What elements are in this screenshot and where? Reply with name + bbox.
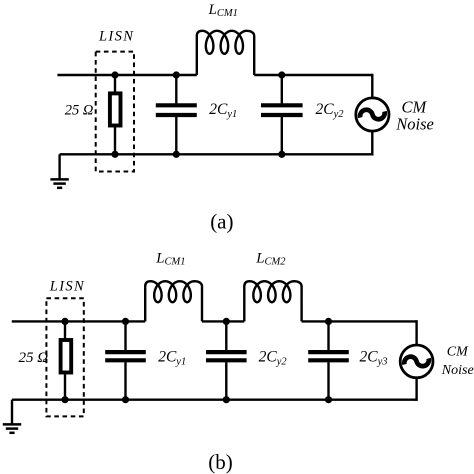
junction (a): top rail / resistor [111,71,118,78]
wire: (a) top rail, LISN input to L_CM1 left terminal [57,74,196,76]
inductor L_CM1 (b) coil [145,281,202,321]
svg-text:LCM1: LCM1 [155,250,185,267]
junction (a): bottom rail / resistor [111,151,118,158]
wire: (a) CM noise source bottom lead [371,131,373,155]
inductor L_CM2 (b) coil [244,281,301,321]
inductor L_CM1 (a) coil [197,31,254,75]
wire: (a) bottom ground rail [60,153,373,155]
junction (b): top rail / resistor [61,318,68,325]
svg-text:Noise: Noise [441,363,474,378]
wire: (b) top rail between L_CM1 and L_CM2 [202,320,244,322]
capacitor 2Cy3 (b) plates [308,352,349,360]
resistor 25 ohm (a) body [110,93,121,125]
junction (a): bottom rail / capacitor 2Cy2 [278,151,285,158]
svg-text:2Cy1: 2Cy1 [158,348,186,367]
capacitor 2Cy1 (b) plates [105,352,146,360]
wire: (a) resistor bottom lead [114,126,116,155]
junction (b): top rail / capacitor 2Cy1 [122,318,129,325]
svg-text:Noise: Noise [395,115,434,134]
junction (b): top rail / capacitor 2Cy2 [223,318,230,325]
wire: (a) CM noise source top lead [371,74,373,98]
junction (b): bottom rail / capacitor 2Cy1 [122,396,129,403]
svg-text:LISN: LISN [49,278,85,294]
junction (b): bottom rail / capacitor 2Cy2 [223,396,230,403]
junction (b): bottom rail / resistor [61,396,68,403]
wire: (a) top rail, L_CM1 right terminal to CM noise source [254,74,372,76]
resistor 25 ohm (b) body [61,340,72,373]
svg-text:(a): (a) [210,209,233,233]
CM noise source (b) sine generator [400,345,433,378]
wire: (b) capacitor 2Cy2 top lead [225,321,227,350]
svg-text:(b): (b) [208,450,233,474]
wire: (a) capacitor 2Cy1 bottom lead [175,117,177,154]
capacitor 2Cy1 (a) plates [156,105,197,115]
svg-text:2Cy1: 2Cy1 [209,101,237,120]
svg-text:LISN: LISN [98,28,134,44]
wire: (b) capacitor 2Cy1 bottom lead [124,362,126,400]
ground (a) [50,154,68,188]
wire: (b) capacitor 2Cy3 top lead [327,321,329,350]
wire: (b) CM noise source top lead [415,320,417,345]
junction (a): top rail / capacitor 2Cy2 [278,71,285,78]
junction (a): bottom rail / capacitor 2Cy1 [173,151,180,158]
capacitor 2Cy2 (b) plates [206,352,247,360]
svg-text:LCM2: LCM2 [255,250,286,267]
wire: (b) top rail, L_CM2 right terminal to CM noise source [302,320,417,322]
wire: (a) resistor top lead [114,75,116,93]
svg-text:LCM1: LCM1 [208,2,238,19]
svg-text:2Cy3: 2Cy3 [360,348,388,367]
wire: (b) top rail, LISN input to L_CM1 left terminal [12,320,145,322]
wire: (b) CM noise source bottom lead [415,378,417,401]
svg-text:25 Ω: 25 Ω [19,350,49,366]
LISN enclosure (b) dashed box [46,298,83,416]
junction (a): top rail / capacitor 2Cy1 [173,71,180,78]
wire: (b) capacitor 2Cy1 top lead [124,321,126,350]
capacitor 2Cy2 (a) plates [261,105,303,115]
wire: (a) capacitor 2Cy2 bottom lead [281,117,283,154]
ground (b) [3,400,21,433]
LISN enclosure (a) dashed box [96,52,134,172]
svg-text:2Cy2: 2Cy2 [316,101,345,120]
svg-text:2Cy2: 2Cy2 [259,348,288,367]
wire: (a) capacitor 2Cy2 top lead [281,75,283,103]
wire: (b) capacitor 2Cy3 bottom lead [327,362,329,400]
wire: (b) resistor top lead [64,321,66,340]
svg-text:CM: CM [447,345,469,360]
svg-text:25 Ω: 25 Ω [65,103,94,119]
junction (b): top rail / capacitor 2Cy3 [325,318,332,325]
junction (b): bottom rail / capacitor 2Cy3 [325,396,332,403]
wire: (b) bottom ground rail [12,399,417,401]
wire: (a) capacitor 2Cy1 top lead [175,75,177,103]
wire: (b) capacitor 2Cy2 bottom lead [225,362,227,400]
wire: (b) resistor bottom lead [64,373,66,400]
CM noise source (a) sine generator [356,98,389,131]
